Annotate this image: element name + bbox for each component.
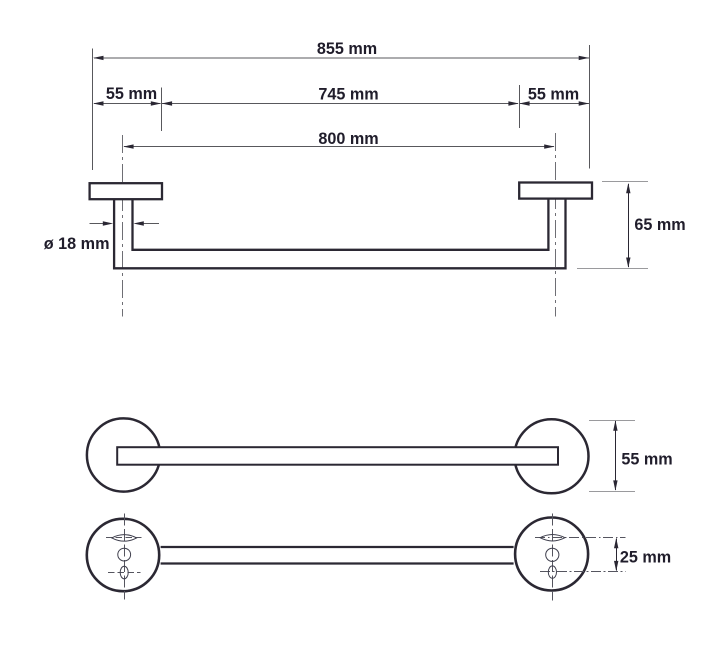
svg-text:55 mm: 55 mm <box>528 85 579 103</box>
svg-text:800 mm: 800 mm <box>318 130 378 148</box>
screw hole right <box>546 548 559 561</box>
centerline horizontal left slot <box>106 537 144 539</box>
centerline horizontal right oval <box>540 571 626 573</box>
dimension 745 mm line <box>162 103 518 105</box>
arrow 25 top <box>614 538 618 548</box>
dimension 55 mm left line <box>94 103 161 105</box>
towel bar U-tube outline <box>114 199 565 269</box>
65 mm extension line top <box>602 181 648 183</box>
55 mm extension bottom <box>589 491 635 493</box>
bar (plan) bottom line <box>161 562 514 564</box>
svg-text:25 mm: 25 mm <box>620 549 671 567</box>
dimension 800 mm line <box>124 146 554 148</box>
rosette left (plan) <box>87 519 159 591</box>
rosette right (plan) <box>515 518 588 591</box>
arrow 855 right <box>579 56 589 60</box>
arrow 855 left <box>93 56 103 60</box>
diameter arrow right <box>136 223 159 225</box>
arrow 65 top <box>626 183 630 193</box>
extension line left (855/55) <box>92 49 94 171</box>
bar (plan) top line <box>161 546 514 548</box>
bar (front) <box>117 447 558 465</box>
slot right (lens) <box>540 534 565 541</box>
centerline left (top view) <box>122 135 124 317</box>
arrow 745 left <box>162 101 172 105</box>
tick left (55/745 boundary) <box>161 88 163 131</box>
svg-text:855 mm: 855 mm <box>317 40 377 58</box>
centerline vertical right circle <box>552 514 554 601</box>
oval left <box>120 566 128 579</box>
svg-text:55 mm: 55 mm <box>621 451 672 469</box>
55 mm extension top <box>589 420 635 422</box>
centerline horizontal right slot <box>535 537 626 539</box>
arrow 55v top <box>613 420 617 430</box>
svg-text:ø 18 mm: ø 18 mm <box>44 235 110 253</box>
tick right (745/55 boundary) <box>519 85 521 128</box>
arrow 745 right <box>508 101 518 105</box>
arrow 65 bottom <box>626 258 630 268</box>
svg-text:55 mm: 55 mm <box>106 85 157 103</box>
diameter arrow left <box>90 223 112 225</box>
arrow 55L left <box>93 101 103 105</box>
wall plate left <box>90 183 162 199</box>
arrow 55v bottom <box>613 480 617 490</box>
svg-text:65 mm: 65 mm <box>634 216 685 234</box>
extension line right (855/55) <box>589 45 591 169</box>
arrow 55L right <box>151 101 161 105</box>
slot left (lens) <box>112 535 137 542</box>
wall rosette left (front) <box>87 418 160 491</box>
dimension 55 mm vertical line <box>615 421 617 490</box>
centerline right (top view) <box>555 133 557 317</box>
screw hole left <box>118 548 131 561</box>
dimension 65 mm vertical line <box>628 184 630 267</box>
centerline horizontal left oval <box>108 572 141 574</box>
dimension 55 mm right line <box>520 103 589 105</box>
arrow 25 bottom <box>614 561 618 571</box>
centerline vertical left circle <box>124 514 126 600</box>
wall plate right <box>519 183 592 199</box>
65 mm extension line bottom <box>577 268 648 270</box>
arrow 800 left <box>123 144 133 148</box>
oval right <box>548 566 556 578</box>
arrow 55R left <box>519 101 529 105</box>
dimension 25 mm vertical line <box>616 539 618 571</box>
dimension 855 mm line <box>94 57 589 59</box>
arrow 800 right <box>544 144 554 148</box>
arrow 55R right <box>579 101 589 105</box>
wall rosette right (front) <box>515 419 589 493</box>
svg-text:745 mm: 745 mm <box>318 85 378 103</box>
